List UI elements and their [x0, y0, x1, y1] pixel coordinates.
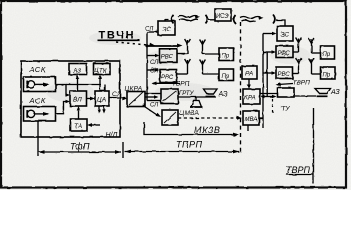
- block Pr2 left: [219, 69, 234, 81]
- svg-text:ʼТУ: ʼТУ: [280, 105, 290, 113]
- loudspeaker street below line: [190, 97, 203, 107]
- block RVS1 right: [276, 46, 293, 58]
- dashed stub to TU: [272, 99, 274, 114]
- block GRTU right: [278, 88, 295, 97]
- svg-text:Пр: Пр: [222, 54, 230, 60]
- svg-text:ЗС: ЗС: [162, 26, 171, 33]
- wire VL up to AZ: [76, 75, 80, 92]
- svg-text:ТВРП: ТВРП: [293, 80, 311, 87]
- block Pr1 right: [321, 46, 335, 59]
- svg-text:ТПРП: ТПРП: [176, 140, 203, 150]
- svg-text:АЗ: АЗ: [330, 89, 340, 96]
- wire stub to RVS2 left: [147, 68, 160, 72]
- block VL: [70, 91, 87, 106]
- downlink waves: [240, 16, 264, 22]
- wire RVS2 to tx antenna row2: [177, 73, 188, 75]
- svg-text:Пр: Пр: [323, 73, 331, 79]
- svg-text:РВС: РВС: [278, 51, 291, 57]
- svg-text:ИСЗ: ИСЗ: [216, 14, 229, 20]
- wire GRTU to loudspeakers: [178, 96, 216, 98]
- wire RVS1 to tx antenna: [177, 53, 188, 55]
- wire rx antenna to Pr1 right: [312, 52, 321, 54]
- wire bus stub arrow row1: [145, 44, 183, 48]
- dashed program line CMVA to MVA: [178, 116, 242, 120]
- wire CA up to CTK: [98, 75, 105, 92]
- radio link waves left: [178, 15, 201, 21]
- wire second right bus vertical: [266, 52, 268, 97]
- wire stub to RVS1 right: [263, 50, 276, 54]
- block CTK: [94, 64, 111, 75]
- wire stub to RVS1 left: [147, 54, 160, 58]
- wire CKRA to GRTU lines: [145, 94, 161, 99]
- radio link left paren: [172, 15, 174, 24]
- downlink right paren: [273, 15, 275, 24]
- wire ASK1 line to CTK: [66, 84, 101, 86]
- wire bus arrow into ZS right: [263, 32, 277, 36]
- block Pr1 left: [219, 48, 234, 61]
- wire GRTU right to loudspeaker: [294, 95, 316, 97]
- block ZS right: [277, 26, 293, 41]
- block MVA: [243, 111, 259, 125]
- svg-text:ВЛ: ВЛ: [73, 97, 82, 104]
- dimension TfP: [38, 142, 121, 154]
- wire right bus vertical: [262, 34, 264, 129]
- svg-text:РВС: РВС: [278, 72, 291, 78]
- wire into TA: [87, 123, 100, 127]
- wire TA up to VL: [77, 106, 81, 119]
- svg-text:ЦТК: ЦТК: [95, 68, 107, 74]
- svg-text:МКЗВ: МКЗВ: [194, 125, 220, 135]
- wire MVA bottom stub: [247, 125, 249, 131]
- wire TVRP boundary vertical: [313, 108, 315, 184]
- antenna rx row2 right: [309, 59, 315, 75]
- label TVRP bottom right: [286, 165, 314, 175]
- wire VL to CA: [87, 97, 96, 101]
- wire CA to CKRA: [109, 97, 127, 101]
- svg-text:МВА: МВА: [245, 117, 258, 123]
- svg-text:ЗС: ЗС: [281, 32, 290, 39]
- wire stub to ZS left: [147, 31, 158, 33]
- wire rx antenna to Pr2 left: [203, 73, 220, 75]
- label TVRP pointer left side: [152, 81, 190, 88]
- antenna tx row1 left: [185, 39, 191, 54]
- wire KRA to GRTU right: [260, 94, 278, 99]
- wire paren to ISZ: [209, 19, 216, 21]
- antenna rx row1 right: [309, 39, 315, 54]
- studio complex outer box TfP: [21, 61, 120, 137]
- wire CKRA to CMVA diagonal: [143, 106, 161, 118]
- wire ASK2 to VL: [56, 100, 71, 114]
- label GVRP pointer right side: [276, 80, 311, 87]
- antenna tx row2 right: [296, 58, 302, 74]
- svg-text:Н/Л: Н/Л: [106, 132, 118, 139]
- block CA: [95, 91, 109, 106]
- loudspeaker subscriber AZ right: [315, 89, 331, 97]
- svg-text:СЛ: СЛ: [150, 60, 159, 66]
- wire bus turn to GRTU: [147, 100, 161, 102]
- wire RVS2r to tx antenna: [293, 73, 299, 75]
- svg-text:СЛ: СЛ: [150, 103, 159, 109]
- svg-text:Пр: Пр: [323, 52, 331, 58]
- block TA: [71, 119, 88, 131]
- svg-text:ТВРП: ТВРП: [286, 165, 311, 175]
- svg-text:АЗ: АЗ: [218, 91, 228, 98]
- wire bus vertical left: [146, 32, 148, 101]
- block ASK2: [24, 107, 56, 122]
- downlink left paren: [234, 15, 236, 24]
- block ISZ satellite: [215, 9, 231, 21]
- wire RVS1r to tx antenna: [293, 51, 299, 53]
- svg-text:КРА: КРА: [245, 96, 256, 102]
- antenna rx row2 left: [200, 60, 206, 75]
- svg-text:РВС: РВС: [161, 55, 174, 61]
- antenna tx row2 left: [185, 59, 191, 74]
- wire rx antenna to Pr1 left: [203, 53, 220, 55]
- block ZS left: [158, 21, 175, 35]
- wire MVA to bus: [259, 117, 263, 119]
- radio link right paren: [206, 15, 208, 24]
- wire rx antenna to Pr2 right: [312, 73, 321, 75]
- dashed pointer from TVChN to bus: [116, 42, 156, 47]
- antenna tx row1 right: [296, 38, 302, 53]
- wire paren to ZS right: [276, 20, 285, 26]
- svg-text:ГРТУ: ГРТУ: [179, 91, 195, 97]
- svg-text:АСК: АСК: [29, 96, 47, 105]
- svg-text:ЦМВА: ЦМВА: [180, 110, 200, 117]
- dimension TPRP: [125, 140, 240, 154]
- svg-text:АЗ: АЗ: [72, 68, 81, 75]
- block CKRA: [127, 92, 145, 107]
- block ASK1: [24, 77, 56, 92]
- block KRA: [243, 89, 260, 104]
- wire ASK2 down to dimension: [37, 121, 39, 156]
- dashed section divider TPRP/TVRP: [240, 22, 242, 155]
- loudspeaker subscriber AZ left: [204, 89, 218, 97]
- block RVS1 left: [160, 49, 178, 63]
- dimension MKZV: [144, 122, 239, 136]
- svg-text:ТВРП: ТВРП: [172, 81, 190, 88]
- svg-text:АСК: АСК: [29, 65, 47, 74]
- antenna rx row1 left: [200, 40, 206, 55]
- svg-text:ЦА: ЦА: [97, 97, 106, 104]
- block RVS2 left: [160, 70, 177, 83]
- wire ASK1 to VL: [56, 85, 71, 97]
- label TVChN title: [98, 30, 141, 42]
- svg-text:ТфП: ТфП: [70, 142, 90, 152]
- block GRTU left: [161, 89, 178, 104]
- wire CA down outputs: [97, 106, 105, 114]
- dimension tick left of TPRP: [122, 142, 124, 158]
- wire stub to RVS2 right: [263, 71, 276, 75]
- block RVS2 right: [276, 67, 293, 79]
- wire ZS up to radio link: [165, 20, 169, 22]
- block CMVA: [162, 110, 178, 125]
- wire RA down to KRA: [247, 79, 251, 89]
- block RA: [242, 66, 257, 79]
- svg-text:Пр: Пр: [222, 74, 230, 80]
- block Pr2 right: [321, 67, 336, 79]
- svg-text:ТА: ТА: [74, 123, 82, 130]
- block AZ: [69, 64, 87, 75]
- svg-text:РА: РА: [245, 71, 253, 78]
